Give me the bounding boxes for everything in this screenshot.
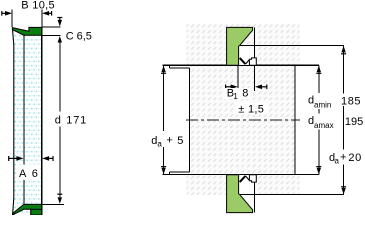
svg-text:amax: amax bbox=[314, 121, 334, 130]
shaft right edge bbox=[294, 65, 296, 174]
bottom lip hinge zig-zag bbox=[240, 176, 246, 182]
shaft left edge bbox=[189, 68, 191, 172]
dimension B extension line right bbox=[41, 10, 43, 27]
top seal lip (green section) bbox=[12, 27, 41, 35]
dimension line A (d_a min / d_a max) bbox=[318, 65, 320, 174]
svg-text:5: 5 bbox=[177, 135, 183, 147]
top support bracket bbox=[249, 58, 256, 65]
housing/shaft hatched region bbox=[187, 24, 300, 195]
left dimension line (d_a + 5) bbox=[163, 65, 165, 131]
shaft left step top bbox=[169, 67, 189, 69]
dimension A left arrow bbox=[9, 156, 24, 161]
dimension B left arrow bbox=[2, 11, 12, 16]
B1 extension line right bbox=[254, 65, 256, 91]
svg-text:171: 171 bbox=[66, 115, 87, 127]
seal left profile outline bbox=[12, 28, 13, 215]
extension line seal bottom to d dim bbox=[42, 203, 64, 205]
svg-text:20: 20 bbox=[348, 152, 361, 164]
label A 6 bbox=[17, 165, 40, 180]
svg-text:C: C bbox=[66, 30, 74, 42]
label d_a max 195 bbox=[305, 114, 342, 130]
seal inner edge line bbox=[23, 35, 25, 204]
shaft top surface line bbox=[162, 64, 319, 66]
bottom lip green block bbox=[31, 209, 42, 215]
dimension d bottom arrow bbox=[57, 194, 62, 204]
dimension B right arrow bbox=[42, 11, 52, 16]
dimension C bottom arrow / d dim line top arrow bbox=[58, 36, 62, 43]
bottom installed V-ring white notch bbox=[238, 175, 254, 196]
extension line seal top to C dim bbox=[42, 26, 61, 28]
svg-text:6,5: 6,5 bbox=[77, 30, 92, 42]
svg-text:195: 195 bbox=[345, 116, 363, 128]
label d_a + 20 bbox=[327, 150, 365, 165]
dimension C top arrow bbox=[57, 18, 62, 27]
B1 right arrow bbox=[255, 85, 267, 90]
B1 extension line left bbox=[237, 65, 239, 91]
svg-text:+: + bbox=[166, 134, 172, 146]
svg-text:+: + bbox=[340, 152, 346, 164]
seal right edge bbox=[41, 27, 43, 215]
bottom seal lip (green section) bbox=[13, 204, 42, 215]
svg-text:185: 185 bbox=[341, 95, 361, 107]
top counterface wall line bbox=[253, 27, 255, 65]
bottom contact extension line (d_a) bbox=[240, 194, 344, 196]
svg-text:± 1,5: ± 1,5 bbox=[238, 104, 264, 116]
label B1 8 bbox=[225, 88, 251, 99]
top installed V-ring (green) bbox=[227, 27, 253, 65]
extension line seal mid to C dim bbox=[42, 34, 61, 36]
svg-text:B 10,5: B 10,5 bbox=[21, 0, 55, 11]
top installed V-ring white notch bbox=[238, 45, 254, 65]
white margins beside shaft bbox=[186, 65, 189, 174]
svg-text:A: A bbox=[19, 168, 27, 180]
svg-text:6: 6 bbox=[32, 168, 38, 180]
svg-text:1: 1 bbox=[233, 92, 238, 101]
dimension line B (d_a contact, + 20) bbox=[343, 46, 345, 195]
bottom counterface wall line bbox=[253, 175, 255, 213]
label d_a min 185 bbox=[305, 93, 342, 109]
svg-text:amin: amin bbox=[314, 100, 331, 109]
dimension B extension line left bbox=[11, 10, 13, 28]
dimension d line (interrupted by label) bbox=[59, 42, 61, 112]
label plus-minus 1,5 bbox=[236, 103, 269, 115]
seal body (dotted fill silhouette) bbox=[12, 27, 41, 215]
shaft left step bottom bbox=[169, 171, 189, 173]
label d_a + 5 bbox=[147, 131, 188, 147]
dimension A right arrow bbox=[42, 156, 53, 161]
top contact extension line (d_a) bbox=[240, 45, 344, 47]
svg-text:8: 8 bbox=[242, 87, 248, 99]
centerline bbox=[186, 119, 300, 121]
top lip hinge zig-zag bbox=[240, 58, 246, 64]
bottom installed V-ring (green) bbox=[227, 175, 253, 213]
svg-text:d: d bbox=[55, 115, 61, 127]
svg-text:a: a bbox=[335, 157, 340, 166]
B1 left arrow bbox=[226, 85, 238, 90]
svg-text:a: a bbox=[157, 139, 162, 148]
bottom support bracket bbox=[249, 175, 256, 182]
shaft bottom surface line bbox=[162, 174, 319, 176]
